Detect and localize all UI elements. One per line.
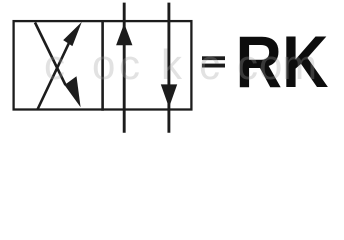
down arrow head: [161, 84, 177, 107]
svg-text:c: c: [119, 41, 140, 88]
port line T (top right of right box) + down-arrow stem: [167, 3, 170, 133]
svg-text:c: c: [199, 41, 220, 88]
up arrow head: [116, 23, 132, 45]
svg-text:k: k: [161, 41, 183, 88]
equals sign bottom bar: [202, 64, 225, 68]
svg-text:m: m: [282, 41, 317, 88]
svg-text:o: o: [92, 41, 115, 88]
position divider line: [101, 20, 104, 111]
equals sign top bar: [202, 56, 225, 60]
port line P (top left of right box) + up-arrow stem: [123, 3, 126, 133]
valve body outer box: [14, 21, 192, 109]
svg-text:o: o: [259, 41, 282, 88]
crossed flow path: down-right line: [35, 23, 66, 86]
crossed flow path: up-right arrow head: [63, 22, 82, 46]
svg-text:c: c: [44, 41, 65, 88]
crossed flow path: up-right line: [38, 42, 70, 109]
crossed flow path: down-right arrow head: [65, 76, 81, 107]
faint stock-photo watermark band: [44, 41, 317, 88]
svg-text:c: c: [237, 41, 258, 88]
